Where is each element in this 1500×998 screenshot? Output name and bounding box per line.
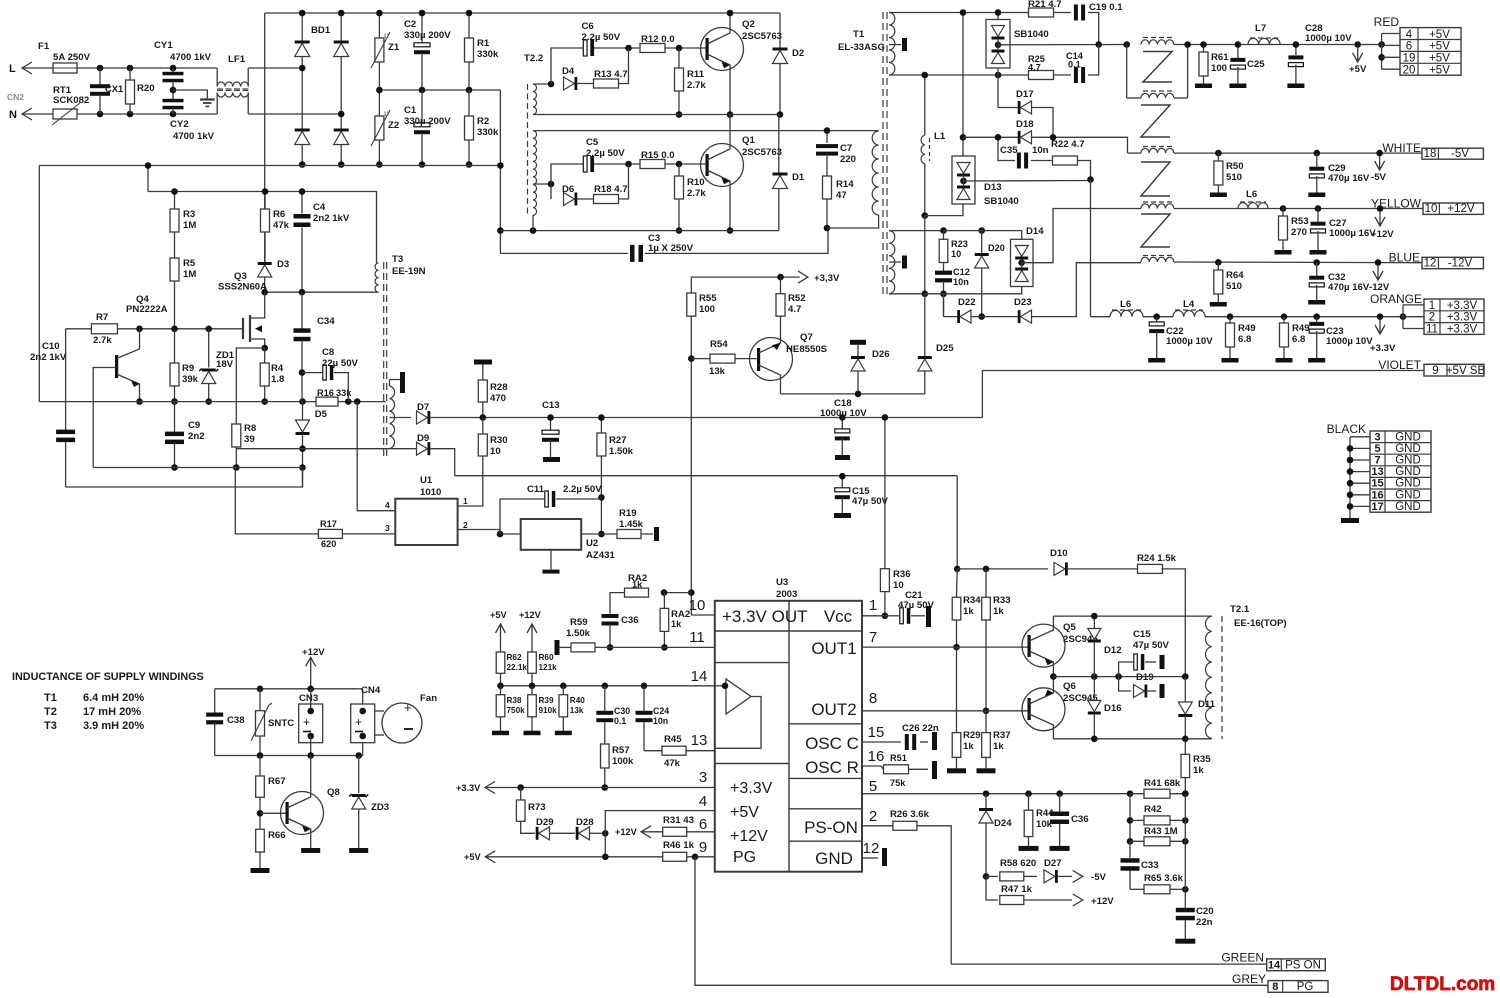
svg-text:+: + <box>303 715 310 729</box>
junction R53 top <box>1280 205 1287 212</box>
junction D28-pin4 <box>602 830 609 837</box>
svg-text:R13 4.7: R13 4.7 <box>594 69 628 80</box>
svg-text:D17: D17 <box>1016 89 1034 100</box>
junction BD1c top rail <box>338 10 345 17</box>
capacitor CY1 <box>172 68 174 73</box>
wire C6 branch vertical <box>551 48 584 84</box>
svg-text:R59: R59 <box>570 617 588 628</box>
capacitor C18 <box>841 417 843 429</box>
capacitor C38 plates <box>206 713 223 717</box>
junction Q8 collector top <box>307 752 314 759</box>
capacitor C35 plates <box>1017 153 1021 169</box>
transistor Q2 emitter arrow <box>722 62 731 68</box>
svg-text:1010: 1010 <box>420 487 441 498</box>
svg-text:11: 11 <box>1426 324 1438 336</box>
svg-text:4700 1kV: 4700 1kV <box>173 131 215 142</box>
svg-text:OSC R: OSC R <box>805 758 859 777</box>
wire +3.3V feed vertical x1090.5 <box>1090 180 1092 317</box>
svg-text:Z1: Z1 <box>388 42 400 53</box>
wire R17 to return <box>235 468 318 534</box>
svg-text:GREY: GREY <box>1232 972 1266 986</box>
junction R43 right <box>1182 838 1189 845</box>
svg-text:R19: R19 <box>619 508 637 519</box>
svg-text:1k: 1k <box>671 619 682 629</box>
resistor R2 <box>468 90 470 116</box>
svg-text:Q7: Q7 <box>800 332 813 343</box>
T1 primary humps <box>872 131 878 215</box>
wire T1 primary bottom <box>827 215 879 228</box>
-12V down arrow <box>1373 266 1383 280</box>
svg-text:5A 250V: 5A 250V <box>53 52 91 63</box>
junction R52 top <box>777 274 784 281</box>
wire L1 to D13 bottom <box>924 164 926 216</box>
T2.2 lower winding humps <box>533 131 537 216</box>
T2.1 core line <box>1221 616 1223 739</box>
resistor R30 <box>482 418 484 435</box>
svg-text:D12: D12 <box>1104 645 1122 656</box>
capacitor C10 <box>65 329 67 430</box>
svg-text:2.7k: 2.7k <box>687 188 706 199</box>
+12V winding dash <box>1143 201 1172 203</box>
stub BLACK row 3 <box>1350 471 1370 473</box>
wire R30 to U1 pin1 <box>458 456 483 506</box>
wire CN4 to fan <box>375 710 384 712</box>
svg-text:4.7: 4.7 <box>1028 63 1041 73</box>
resistor R19 box <box>617 530 641 539</box>
transistor Q5 emitter arrow <box>1045 659 1054 665</box>
svg-text:220: 220 <box>840 154 856 165</box>
junction R34 top <box>954 566 961 573</box>
svg-text:-5V: -5V <box>1091 872 1107 883</box>
bridge diode BD1d <box>334 132 349 145</box>
svg-text:D13: D13 <box>984 182 1002 193</box>
wire +3.3V line <box>1091 316 1111 318</box>
stub BLACK row 4 <box>1350 482 1370 484</box>
ground symbol AC <box>200 98 215 100</box>
svg-text:330k: 330k <box>477 127 499 138</box>
wire fan cluster bottom rail <box>215 755 363 757</box>
resistor RA2v box <box>660 608 669 631</box>
wire D17 to D18 node <box>1032 108 1054 138</box>
transistor Q2 <box>701 28 744 71</box>
svg-text:C4: C4 <box>313 202 326 213</box>
connector GREY block <box>1268 981 1328 993</box>
junction R61 top <box>1200 41 1207 48</box>
svg-text:R16: R16 <box>317 388 334 398</box>
svg-text:1.50k: 1.50k <box>566 628 591 639</box>
transistor Q7 lower lead <box>759 365 781 394</box>
svg-text:R66: R66 <box>268 830 286 841</box>
resistor R47 <box>986 876 998 900</box>
svg-text:+3.3V: +3.3V <box>1447 300 1478 312</box>
capacitor C2 <box>421 13 423 43</box>
svg-text:EL-33ASG: EL-33ASG <box>838 42 885 53</box>
terminal bar R28 top <box>474 360 492 365</box>
junction RA2v top <box>661 589 668 596</box>
svg-text:+5V SB: +5V SB <box>1446 365 1486 377</box>
resistor R21 box <box>1029 8 1054 17</box>
junction L-CX1 <box>97 65 104 72</box>
svg-text:C33: C33 <box>1141 860 1159 871</box>
svg-text:2.7k: 2.7k <box>93 335 112 346</box>
zener ZD1 symbol <box>202 372 216 384</box>
junction D14 mid <box>1018 259 1025 266</box>
svg-text:GREEN: GREEN <box>1221 951 1264 965</box>
+3.3V down arrow <box>1375 320 1385 334</box>
wire T1 sec upper bottom tap <box>889 74 1029 76</box>
svg-text:39: 39 <box>244 434 255 445</box>
svg-text:T3: T3 <box>392 254 403 265</box>
capacitor C21 <box>885 615 899 617</box>
resistor R5 box <box>170 258 179 281</box>
svg-text:1.8: 1.8 <box>271 374 285 385</box>
svg-text:0.1: 0.1 <box>614 716 626 726</box>
resistor R23 box <box>939 239 948 262</box>
diode D2 symbol <box>773 51 788 64</box>
resistor RA2 horizontal <box>664 592 691 594</box>
resistor R1 box <box>465 38 474 62</box>
resistor R65 box <box>1144 885 1170 894</box>
junction magamp in <box>1123 41 1130 48</box>
wire T1 sec lower bottom tap <box>889 293 925 295</box>
terminal bar R51 <box>932 761 937 779</box>
wire pin12 GND <box>862 857 878 859</box>
transistor Q6 collector <box>1029 677 1053 704</box>
svg-text:+5V: +5V <box>464 852 481 862</box>
junction R50 top <box>1215 150 1222 157</box>
svg-text:+12V: +12V <box>1091 896 1114 907</box>
+12V up arrow fan <box>306 657 316 668</box>
stub BLACK row 5 <box>1350 494 1370 496</box>
wire source to R8 <box>236 348 264 424</box>
svg-text:39k: 39k <box>182 374 199 385</box>
svg-text:T2.1: T2.1 <box>1230 604 1250 615</box>
svg-text:4.7: 4.7 <box>788 304 801 315</box>
resistor R18 box <box>594 195 619 204</box>
svg-text:2n2 1kV: 2n2 1kV <box>313 213 350 224</box>
capacitor C19 plates <box>1074 5 1078 21</box>
U3 comparator feedback wire <box>715 697 761 749</box>
svg-text:14: 14 <box>1268 959 1281 971</box>
ground R40 <box>555 731 572 736</box>
capacitor C36a plates <box>602 614 619 618</box>
svg-text:U2: U2 <box>586 538 598 549</box>
wire F1 to LF1 <box>77 67 217 69</box>
U2 ground stub <box>550 550 552 570</box>
diode D18 <box>963 136 1018 138</box>
inductor LF1 bottom winding <box>217 93 248 98</box>
svg-text:+12V: +12V <box>1371 229 1394 240</box>
svg-text:R35: R35 <box>1193 754 1211 765</box>
svg-text:DLTDL.com: DLTDL.com <box>1390 974 1495 995</box>
arrow +5V left <box>485 851 495 863</box>
junction CN4 pin+ <box>359 708 366 715</box>
transistor Q6 collector arrow <box>1045 690 1054 696</box>
svg-text:+: + <box>404 700 412 715</box>
saturable core Z1 glyph <box>1143 52 1172 83</box>
diode D2 <box>779 13 781 48</box>
svg-text:1000µ 10V: 1000µ 10V <box>1166 336 1213 347</box>
+12V line winding <box>1141 204 1174 209</box>
svg-text:D19: D19 <box>1136 672 1154 683</box>
svg-text:+3.3V: +3.3V <box>1447 312 1478 324</box>
resistor R33 box <box>982 597 991 620</box>
svg-text:2: 2 <box>869 808 877 825</box>
svg-text:510: 510 <box>1226 172 1242 183</box>
transistor Q4 emitter arrow <box>131 381 140 388</box>
junction D6 tap <box>548 181 555 188</box>
wire mid rail to T1 y130.6 <box>533 130 879 132</box>
svg-text:0.1: 0.1 <box>1068 60 1081 70</box>
svg-text:121k: 121k <box>539 663 558 672</box>
svg-text:PS-ON: PS-ON <box>804 818 858 837</box>
resistor R4 box <box>260 363 269 386</box>
svg-text:R20: R20 <box>137 83 155 94</box>
wire x924.8 vertical upper <box>924 75 926 135</box>
resistor R62 box <box>496 652 505 673</box>
junction R49a top <box>1227 313 1234 320</box>
svg-text:+5V: +5V <box>490 610 507 620</box>
capacitor C25 plates <box>1230 58 1245 62</box>
connector ORANGE block <box>1424 299 1484 334</box>
wire +5VSB rail <box>982 371 1424 418</box>
wire top HV rail <box>265 12 780 14</box>
ground R44 <box>1019 846 1039 851</box>
svg-text:C26 22n: C26 22n <box>902 723 939 734</box>
svg-text:15: 15 <box>868 724 885 741</box>
svg-text:4: 4 <box>385 500 390 510</box>
svg-text:R10: R10 <box>687 177 705 188</box>
svg-text:C9: C9 <box>188 420 200 431</box>
junction D26 bottom <box>855 391 862 398</box>
resistor R16 box <box>316 397 338 406</box>
transistor Q2 emitter <box>707 54 730 115</box>
svg-text:U1: U1 <box>420 475 433 486</box>
junction R11 bottom <box>676 111 683 118</box>
wire ladder right spine <box>1184 794 1186 908</box>
svg-text:6.4 mH 20%: 6.4 mH 20% <box>83 692 144 704</box>
terminal bar C15a bottom <box>834 513 851 518</box>
U3 pin14 internal wire <box>715 685 726 687</box>
svg-text:WHITE: WHITE <box>1382 141 1421 155</box>
capacitor C13 <box>550 418 552 431</box>
-5V line winding <box>1141 148 1174 153</box>
junction R62 bottom <box>497 683 504 690</box>
svg-text:R43 1M: R43 1M <box>1144 826 1178 837</box>
resistor R52 box <box>776 294 785 317</box>
wire D29 D28 <box>550 832 576 834</box>
capacitor C38 <box>214 689 216 713</box>
wire OUT2 pin8 <box>862 710 1029 712</box>
resistor R37 <box>985 711 987 733</box>
svg-text:1k: 1k <box>993 606 1004 617</box>
svg-text:D20: D20 <box>988 243 1005 253</box>
resistor R28 box <box>478 380 487 402</box>
svg-text:R6: R6 <box>273 209 285 220</box>
wire D13 mid to vertical <box>964 180 1091 183</box>
ground C29 <box>1308 193 1325 198</box>
stub ORANGE pin11 <box>1403 328 1424 330</box>
svg-text:LF1: LF1 <box>228 54 246 65</box>
svg-text:470µ 16V: 470µ 16V <box>1328 173 1370 184</box>
svg-text:YELLOW: YELLOW <box>1371 197 1422 211</box>
transistor Q5 emitter <box>1029 651 1053 677</box>
svg-text:R62: R62 <box>507 653 522 662</box>
ground ZD3 <box>349 848 368 853</box>
junction C4-C34 node <box>299 289 306 296</box>
junction SB1040 bottom <box>995 72 1002 79</box>
svg-text:C24: C24 <box>653 706 669 716</box>
label CN4 - <box>355 731 363 733</box>
wire D10 to R24 <box>1067 568 1138 570</box>
wire aux line y192 vertical from bottom rail <box>147 166 149 192</box>
resistor R20 box <box>126 80 135 104</box>
junction R1 mid <box>466 87 473 94</box>
connector YELLOW block <box>1423 203 1483 214</box>
svg-text:D22: D22 <box>958 297 976 308</box>
T1 secondary upper humps <box>889 13 895 76</box>
svg-text:R28: R28 <box>490 382 508 393</box>
transistor Q7 upper lead <box>759 338 781 353</box>
resistor R30 box <box>478 434 487 456</box>
svg-text:5: 5 <box>1374 443 1380 455</box>
junction R28-R30 <box>480 414 487 421</box>
ground C28 <box>1287 84 1304 89</box>
svg-text:4: 4 <box>1406 29 1413 41</box>
svg-text:2SC5763: 2SC5763 <box>742 31 782 42</box>
wire R24 down <box>1162 569 1186 677</box>
svg-text:R55: R55 <box>699 293 717 304</box>
resistor R60 box <box>528 652 537 673</box>
junction C4 top <box>299 188 306 195</box>
+12V down arrow <box>1375 212 1385 226</box>
L6 dash <box>1112 309 1141 311</box>
svg-text:D4: D4 <box>562 66 575 77</box>
wire RA2 to C36 <box>610 593 625 614</box>
zener ZD3 <box>358 756 360 794</box>
junction R1 top <box>466 10 473 17</box>
svg-text:ORANGE: ORANGE <box>1370 292 1422 306</box>
resistor R73 <box>520 788 522 801</box>
junction x963 top <box>960 9 967 16</box>
junction R54 <box>688 355 695 362</box>
resistor R17 box <box>318 529 342 538</box>
svg-text:D5: D5 <box>315 409 328 420</box>
junction R27-U2 <box>598 531 605 538</box>
junction PG tap <box>692 854 699 861</box>
wire SB1040 bottom to D17 <box>997 75 999 108</box>
transistor Q1 emitter <box>707 170 730 231</box>
terminal bar C15 <box>1160 655 1165 669</box>
svg-text:+: + <box>355 715 362 729</box>
svg-text:Q6: Q6 <box>1063 681 1076 692</box>
junction CN3 pin- <box>307 733 314 740</box>
svg-text:330µ 200V: 330µ 200V <box>404 30 451 41</box>
svg-text:R50: R50 <box>1226 161 1244 172</box>
svg-text:4: 4 <box>699 793 707 810</box>
-5V winding dash <box>1143 146 1172 148</box>
resistor R27 <box>600 418 602 434</box>
junction C13 top <box>547 414 554 421</box>
wire gate line y328.8 <box>66 328 243 330</box>
wire pin5 line <box>862 793 1130 795</box>
svg-text:CN2: CN2 <box>7 92 24 102</box>
junction RA2v bottom <box>661 644 668 651</box>
svg-text:C11: C11 <box>527 484 545 495</box>
diode D24 symbol <box>979 811 993 823</box>
capacitor C18 plates <box>835 429 850 433</box>
svg-text:100: 100 <box>1211 63 1227 74</box>
junction D13 bottom <box>922 212 929 219</box>
ground C23 <box>1308 358 1325 363</box>
junction C25 top <box>1235 41 1242 48</box>
svg-text:R23: R23 <box>951 239 968 249</box>
capacitor C11 <box>500 499 544 534</box>
varistor Z1 box <box>375 38 384 62</box>
magamp1 top dash <box>1143 37 1172 39</box>
svg-text:R36: R36 <box>893 569 911 580</box>
svg-text:R18 4.7: R18 4.7 <box>594 184 628 195</box>
capacitor C34 plates <box>294 328 311 333</box>
wire OUT1 pin7 <box>862 646 1029 648</box>
magamp1 top humps <box>1141 40 1174 45</box>
capacitor C35 <box>998 137 1015 160</box>
diode D5 symbol <box>296 420 310 432</box>
diode D25 symbol <box>918 359 932 371</box>
transistor Q8 collector <box>287 756 311 809</box>
thermistor SNTC box <box>256 711 265 736</box>
junction R57 bottom <box>602 784 609 791</box>
resistor R1 <box>468 13 470 38</box>
transistor Q8 emitter <box>287 818 311 844</box>
junction +3.3V arrow <box>1377 313 1384 320</box>
LF1 core line 2 <box>217 89 248 91</box>
svg-text:10: 10 <box>951 249 961 259</box>
wire C6 to R12 <box>594 47 640 49</box>
junction D5-return <box>299 464 306 471</box>
svg-text:C30: C30 <box>614 706 630 716</box>
capacitor C15 plates <box>1134 654 1138 670</box>
wire C19 down <box>1088 13 1099 45</box>
connector CN4 <box>351 704 375 743</box>
diode D11 symbol <box>1178 702 1192 714</box>
wire return line y467.5 <box>93 467 302 469</box>
resistor R61 <box>1203 45 1205 53</box>
capacitor C23 plates <box>1309 322 1324 326</box>
svg-text:10: 10 <box>689 597 706 614</box>
svg-text:C12: C12 <box>953 267 970 277</box>
junction R36 rail <box>882 414 889 421</box>
svg-text:GND: GND <box>1395 501 1421 513</box>
svg-text:C8: C8 <box>322 347 335 358</box>
fuse F1 <box>53 63 77 73</box>
svg-text:R37: R37 <box>993 730 1011 741</box>
wire x924.8 vertical lower <box>924 216 926 294</box>
svg-text:14: 14 <box>691 668 708 685</box>
capacitor C19 <box>1054 12 1072 14</box>
svg-text:1000µ 10V: 1000µ 10V <box>1326 336 1373 347</box>
capacitor C8 <box>302 372 322 374</box>
junction Q5-Q6 mid <box>1050 673 1057 680</box>
junction Q4 emitter rail <box>136 398 143 405</box>
transistor Q1 <box>701 144 744 187</box>
resistor R59 box <box>571 643 595 652</box>
connector BLUE block <box>1422 257 1483 268</box>
+12V up arrow <box>527 624 537 635</box>
capacitor C15a <box>841 476 843 488</box>
diode D19 symbol <box>1134 685 1145 698</box>
junction Z2 bottom <box>376 161 383 168</box>
